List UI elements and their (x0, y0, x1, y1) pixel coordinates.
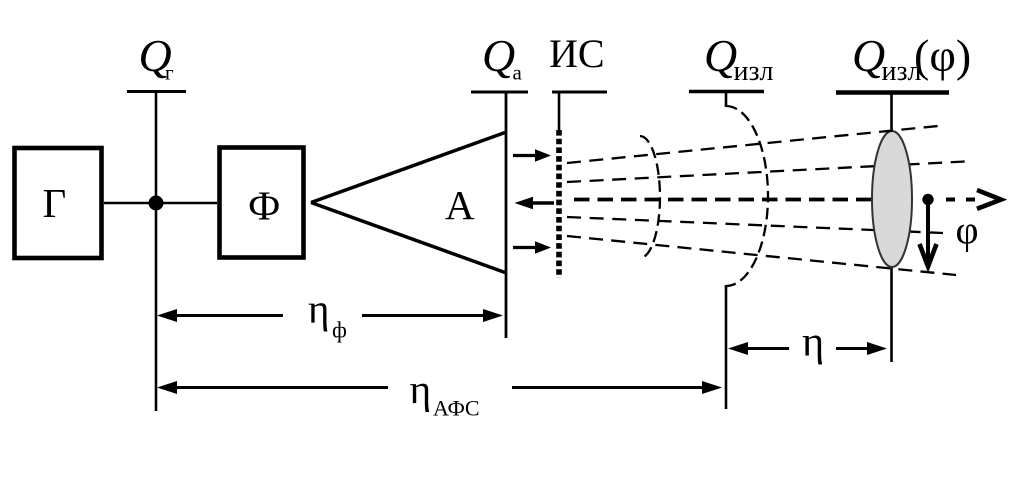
feeder block Ф (220, 148, 304, 258)
svg-text:Q: Q (704, 30, 737, 81)
node Qизл(φ) tick (836, 90, 949, 95)
ray 1 top dashed (567, 126, 938, 163)
svg-text:а: а (513, 61, 523, 85)
radiating aperture ellipse (872, 131, 912, 267)
arrow right bottom (aperture to ИС) (513, 246, 538, 249)
wavefront arc small (640, 136, 660, 258)
wire Qизл stub top (725, 92, 728, 108)
svg-text:φ: φ (956, 208, 979, 253)
measurement surface ИС dotted line (556, 130, 562, 278)
svg-text:Г: Г (43, 180, 67, 226)
wire Г to Ф (104, 202, 217, 205)
svg-text:АФС: АФС (433, 396, 480, 421)
svg-text:ИС: ИС (549, 31, 605, 76)
node Qизл tick (689, 90, 764, 93)
wire vertical through node at x=156 (155, 92, 158, 412)
wire aperture-plane lower (890, 265, 893, 362)
svg-text:изл: изл (734, 56, 774, 87)
ray 3 axis thick dashed (574, 198, 871, 202)
ray 2 dashed (567, 162, 965, 183)
wire aperture plane at x=506 (505, 92, 508, 338)
node ИС tick (552, 91, 607, 94)
node Qа tick (471, 91, 528, 94)
node Qг tick (127, 90, 186, 93)
antenna horn A (311, 133, 505, 273)
wire ИС stub (558, 92, 561, 130)
wavefront arc large (726, 106, 768, 286)
svg-text:г: г (165, 61, 174, 85)
svg-text:(φ): (φ) (914, 30, 971, 81)
arrow left middle (ИС to aperture) (530, 201, 554, 204)
node junction dot (149, 196, 164, 211)
svg-text:Q: Q (852, 30, 885, 81)
generator block Г (15, 148, 102, 258)
arrow ηАФС (157, 381, 177, 394)
svg-text:η: η (802, 319, 824, 366)
svg-text:η: η (410, 366, 432, 412)
arrow ηф double-headed (157, 309, 177, 322)
svg-text:η: η (308, 286, 329, 332)
svg-text:Ф: Ф (248, 183, 280, 229)
arrow right top (aperture to ИС) (513, 154, 538, 157)
arrow axis dashed right (946, 198, 978, 202)
svg-text:А: А (445, 182, 475, 228)
wire aperture-plane stub top (890, 93, 893, 136)
svg-text:Q: Q (482, 30, 515, 81)
wire Qизл lower (725, 285, 728, 409)
arrow φ down (926, 204, 930, 263)
svg-text:ф: ф (332, 318, 347, 343)
ray 4 dashed (567, 217, 943, 233)
ray 5 bottom dashed (567, 236, 956, 275)
arrow η double-headed (728, 342, 748, 355)
node observation dot (922, 194, 933, 205)
